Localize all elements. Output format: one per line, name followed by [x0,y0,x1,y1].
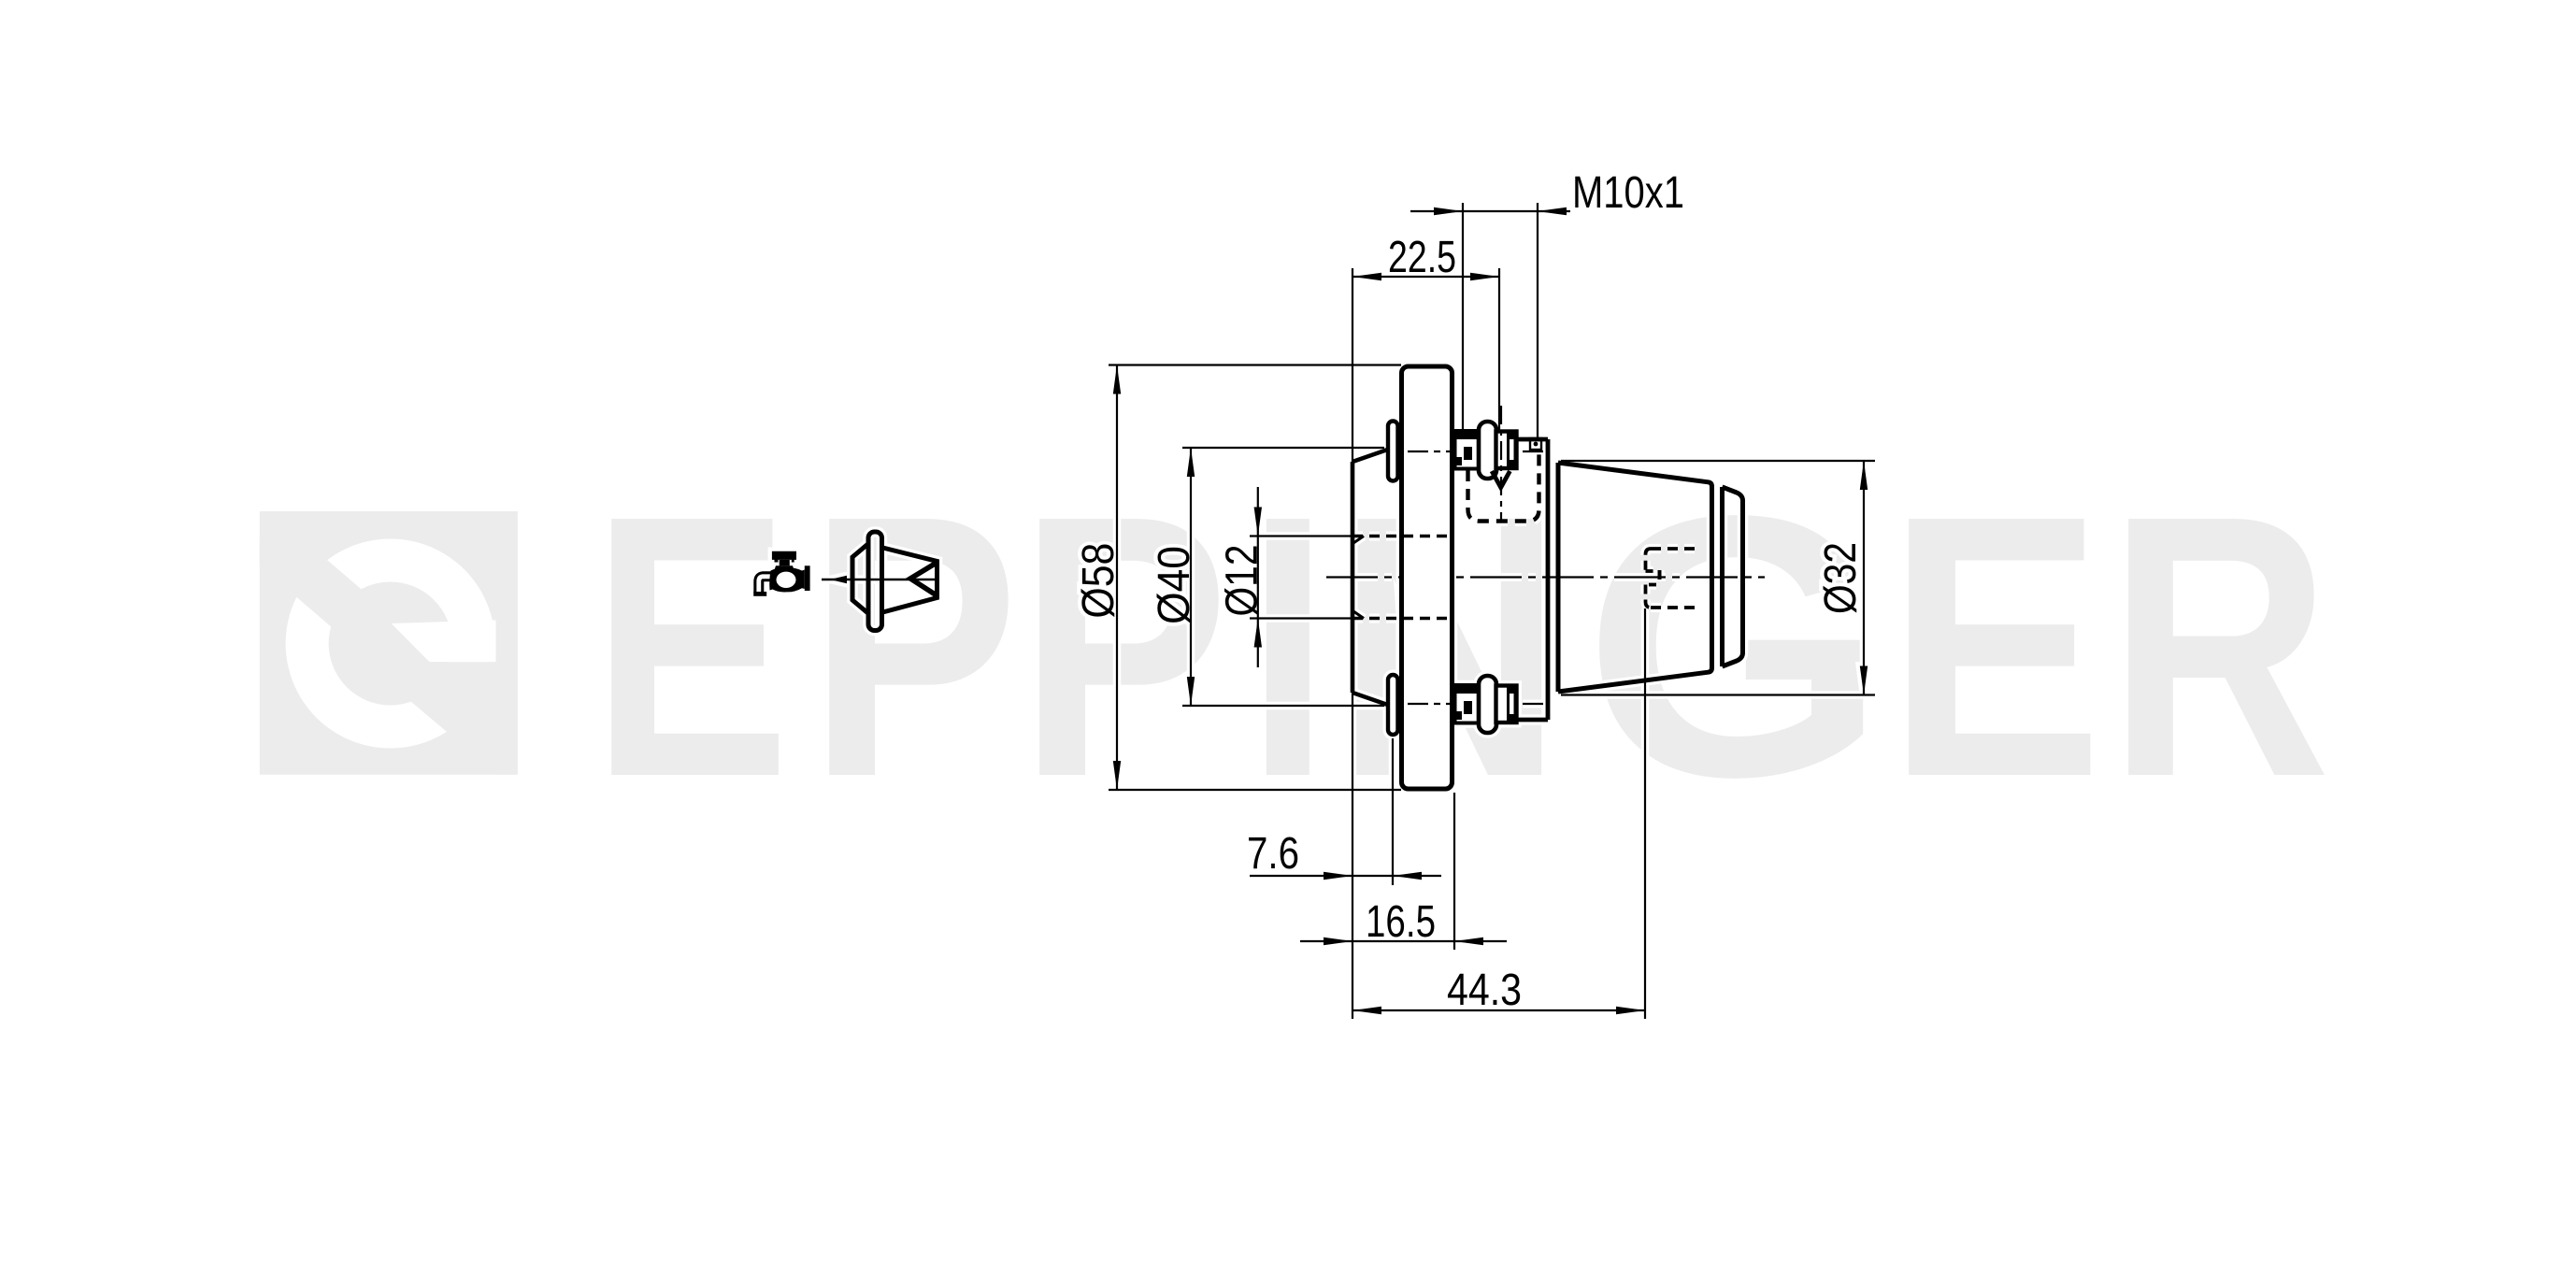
svg-text:E: E [1887,438,2103,854]
logo e ring [286,539,495,749]
logo crossbar [392,621,496,663]
logo slash [247,516,378,643]
svg-text:G: G [1583,439,1887,854]
watermark text EPPINGER [592,438,2331,855]
svg-text:E: E [592,439,790,854]
svg-text:R: R [2108,438,2331,854]
white halo under drawing [753,168,1875,1019]
logo lower cut [365,662,517,790]
svg-text:P: P [809,439,1020,854]
